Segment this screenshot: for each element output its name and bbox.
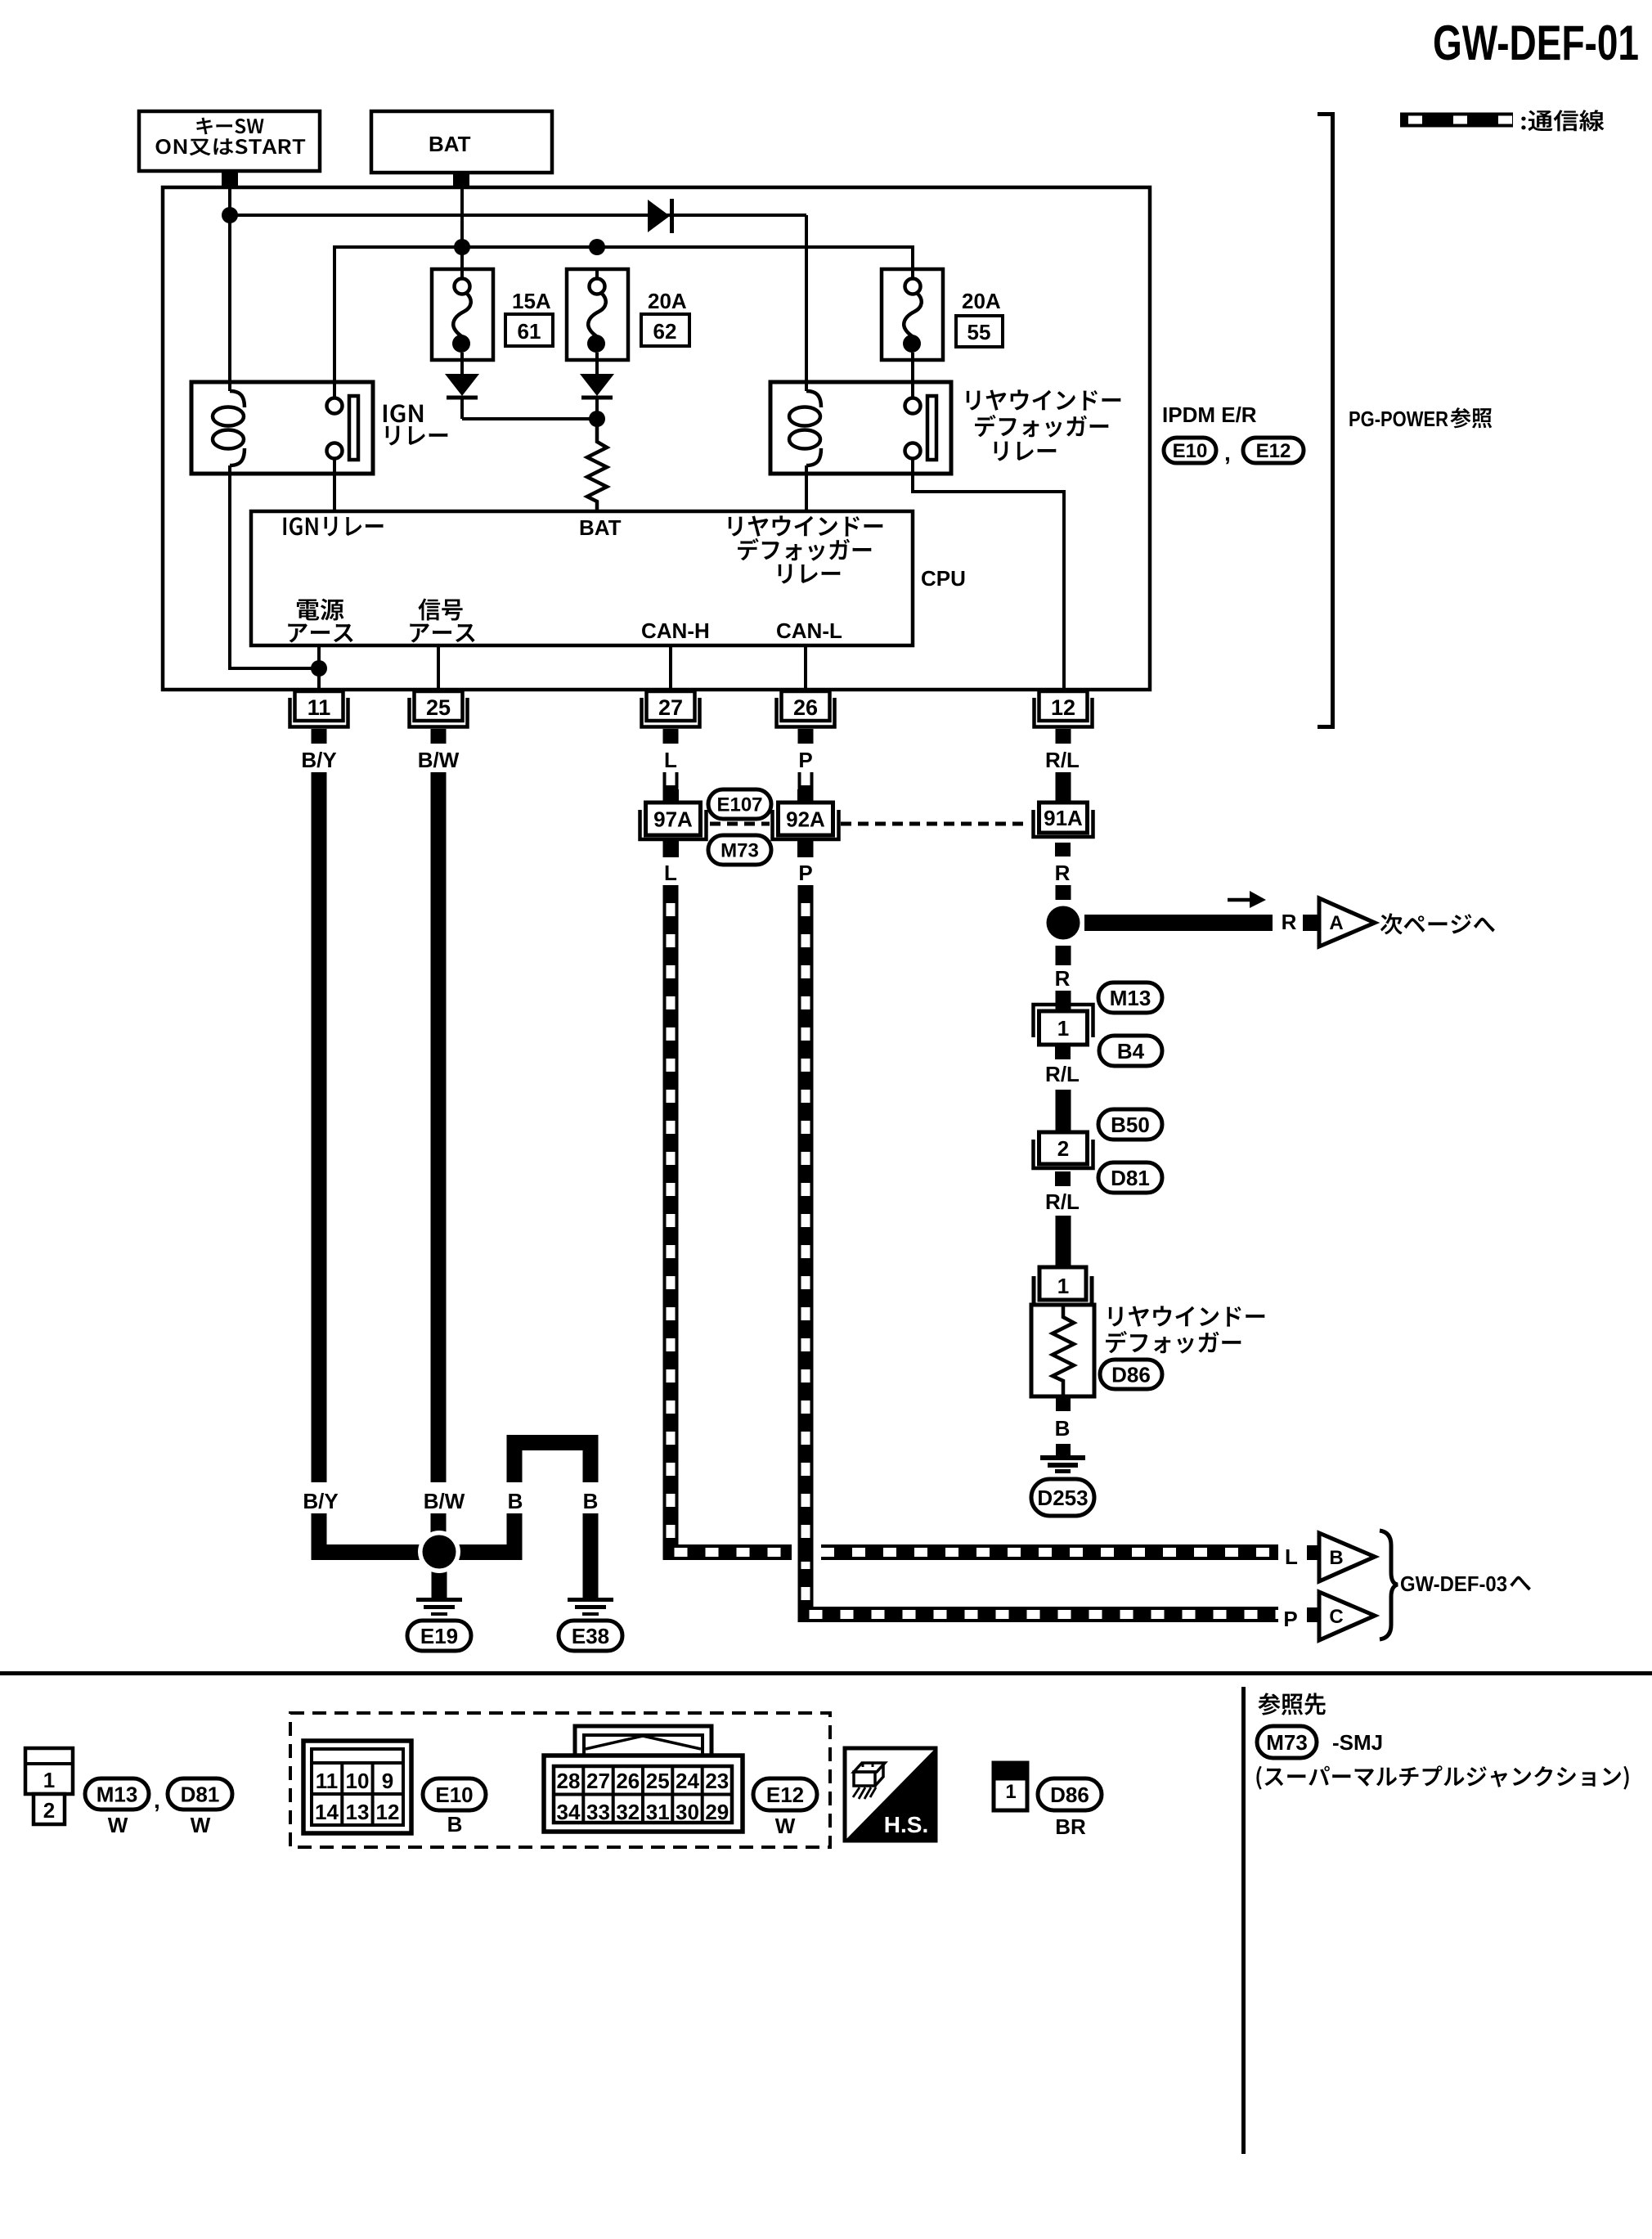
svg-text:CAN-L: CAN-L	[776, 618, 842, 643]
svg-text:CAN-H: CAN-H	[641, 618, 710, 643]
svg-text:E107: E107	[716, 794, 762, 816]
label スーパーマルチプルジャンクション	[1256, 1765, 1628, 1789]
svg-text:PG-POWER: PG-POWER	[1349, 407, 1448, 431]
wire R/L segment e	[1056, 1216, 1071, 1267]
label R at next page	[1282, 910, 1297, 934]
wire R segment a	[1056, 885, 1071, 900]
svg-text:2: 2	[43, 1798, 55, 1823]
label PG-POWER参照	[1349, 407, 1492, 431]
svg-text:M13: M13	[1110, 986, 1151, 1010]
label CAN-L	[776, 618, 842, 643]
oval E12 ref	[1243, 438, 1304, 463]
power source box キーSW ON又はSTART	[139, 111, 320, 186]
svg-text:E38: E38	[572, 1624, 609, 1648]
label 20A fuse55	[962, 289, 1001, 313]
ground D253	[1031, 1455, 1094, 1516]
comma between ovals	[1224, 440, 1231, 465]
brace to GW-DEF-03	[1380, 1531, 1398, 1639]
oval E107	[708, 789, 771, 819]
svg-text:92A: 92A	[786, 807, 825, 831]
label 62 box	[641, 314, 689, 346]
label 参照先	[1258, 1693, 1325, 1715]
svg-text:E12: E12	[766, 1783, 804, 1807]
node bus fuse62 junction	[589, 239, 605, 255]
label B/W	[418, 748, 460, 772]
svg-text:1: 1	[1005, 1781, 1016, 1803]
label R/L mid2	[1045, 1189, 1080, 1214]
wire CPU pin25	[437, 645, 440, 691]
oval E10 ref	[1164, 438, 1216, 463]
connector 92A	[773, 789, 839, 857]
svg-text:15A: 15A	[512, 289, 551, 313]
oval M13 face	[85, 1778, 149, 1810]
oval E10 face	[423, 1778, 486, 1810]
label CPU	[921, 566, 966, 591]
off-page connector B	[1307, 1533, 1375, 1581]
wire splice to E19 ground	[432, 1552, 447, 1598]
wire R segment b	[1056, 946, 1071, 965]
label デフォッガー(CPU)	[738, 538, 871, 561]
svg-text:27: 27	[586, 1769, 610, 1793]
svg-text:W: W	[775, 1814, 796, 1838]
label CAN-H	[641, 618, 710, 643]
svg-text:E10: E10	[1173, 440, 1208, 462]
svg-text:IPDM E/R: IPDM E/R	[1162, 402, 1257, 427]
separator line	[0, 1671, 1652, 1675]
node splice E19	[418, 1531, 460, 1573]
svg-text:1: 1	[1057, 1274, 1069, 1298]
svg-text:P: P	[1283, 1607, 1297, 1631]
svg-text:12: 12	[1051, 695, 1075, 720]
connector E12 face	[544, 1726, 743, 1832]
svg-text:20A: 20A	[962, 289, 1001, 313]
label L at GW-DEF-03	[1285, 1544, 1298, 1569]
svg-text:29: 29	[705, 1800, 729, 1824]
label B right leg	[580, 1482, 601, 1513]
svg-text:30: 30	[676, 1800, 699, 1824]
ground E19	[407, 1598, 471, 1651]
node diode output junction	[589, 411, 605, 427]
connector pin 11	[290, 691, 348, 744]
svg-text:B: B	[508, 1489, 523, 1513]
svg-text:B/W: B/W	[424, 1489, 465, 1513]
label 55 box	[956, 316, 1003, 347]
connector pin 25	[410, 691, 468, 744]
svg-text:A: A	[1329, 912, 1343, 934]
svg-text:B: B	[1055, 1416, 1071, 1441]
connector splice 2 B50/D81	[1034, 1132, 1093, 1186]
svg-text:M73: M73	[721, 840, 759, 862]
svg-text:28: 28	[557, 1769, 581, 1793]
oval M73 face	[1257, 1726, 1317, 1758]
svg-text:91A: 91A	[1044, 806, 1083, 830]
svg-text:D81: D81	[1111, 1166, 1150, 1190]
connector E10 face	[303, 1741, 411, 1833]
label L mid	[661, 857, 680, 885]
label リヤウインドー(load)	[1109, 1306, 1265, 1326]
svg-text:R: R	[1055, 966, 1071, 991]
node key-switch junction	[222, 207, 238, 223]
svg-text:B50: B50	[1111, 1113, 1150, 1137]
svg-text:B: B	[583, 1489, 599, 1513]
fuse F55 20A	[882, 269, 943, 398]
wire R segment c	[1056, 991, 1071, 1011]
svg-text:23: 23	[705, 1769, 729, 1793]
label R above splice	[1055, 861, 1071, 885]
label 20A	[648, 289, 687, 313]
wire R/L segment d	[1056, 1090, 1071, 1132]
svg-text:CPU: CPU	[921, 566, 966, 591]
legend label 通信線	[1521, 110, 1604, 131]
svg-text:1: 1	[43, 1768, 55, 1792]
svg-text:14: 14	[315, 1800, 339, 1824]
svg-text:W: W	[108, 1813, 128, 1837]
oval B4 ref	[1099, 1036, 1162, 1066]
off-page connector C	[1307, 1592, 1375, 1640]
label W M13	[108, 1813, 128, 1837]
svg-text:BR: BR	[1055, 1814, 1086, 1839]
title GW-DEF-01	[1433, 16, 1639, 70]
svg-text:C: C	[1329, 1606, 1343, 1628]
label 15A	[512, 289, 551, 313]
svg-text:61: 61	[518, 319, 541, 344]
svg-text:13: 13	[346, 1800, 370, 1824]
label R/L mid1	[1045, 1062, 1080, 1086]
label リヤウインドーデフォッガーリレー(relay)	[967, 389, 1121, 461]
wire key-switch feed	[228, 173, 231, 382]
svg-text:L: L	[664, 861, 677, 885]
oval D81 ref	[1098, 1162, 1162, 1193]
svg-text:11: 11	[316, 1769, 339, 1793]
wire R to next page (thick)	[1084, 915, 1273, 931]
wire IGN contact to CPU	[333, 459, 336, 511]
label W E12	[775, 1814, 796, 1838]
svg-text:R: R	[1282, 910, 1297, 934]
svg-text:97A: 97A	[653, 807, 693, 831]
node power-ground junction	[311, 660, 327, 677]
svg-text:P: P	[798, 748, 812, 772]
connector M13/D81 cavity 1-2	[25, 1748, 73, 1824]
svg-text:E10: E10	[435, 1783, 473, 1807]
connector pin 27	[642, 691, 700, 744]
label B/Y lower	[297, 1482, 344, 1513]
svg-text:B: B	[1329, 1547, 1343, 1569]
svg-text:B: B	[447, 1812, 463, 1837]
wire defogger contact to pin 12	[913, 459, 1064, 691]
svg-text:GW-DEF-01: GW-DEF-01	[1433, 16, 1639, 70]
wire diode branch	[230, 215, 806, 382]
wire IGN coil return	[230, 465, 319, 668]
svg-text:34: 34	[557, 1800, 581, 1824]
svg-text:20A: 20A	[648, 289, 687, 313]
label R/L	[1045, 748, 1080, 772]
label B E10	[447, 1812, 463, 1837]
node splice R	[1042, 901, 1084, 944]
svg-text:GW-DEF-03: GW-DEF-03	[1400, 1571, 1507, 1596]
svg-text:H.S.: H.S.	[884, 1812, 928, 1837]
label 電源アース	[288, 599, 352, 643]
relay IGN	[191, 382, 373, 474]
label B defogger	[1055, 1416, 1071, 1441]
connector 97A	[640, 789, 707, 857]
wire CPU pin27	[669, 645, 672, 691]
relay rear window defogger	[770, 382, 951, 474]
connector D86 pin 1	[1034, 1267, 1092, 1305]
svg-text:,: ,	[154, 1787, 160, 1813]
svg-text:R/L: R/L	[1045, 1062, 1080, 1086]
CPU box	[251, 511, 913, 645]
wire defogger to ground	[1056, 1444, 1071, 1455]
svg-text:25: 25	[646, 1769, 670, 1793]
svg-text:E19: E19	[420, 1624, 458, 1648]
svg-text:P: P	[798, 861, 812, 885]
svg-text:L: L	[1285, 1544, 1298, 1569]
svg-text:D253: D253	[1037, 1486, 1088, 1510]
svg-text:D81: D81	[181, 1782, 220, 1806]
dashed link 97A-92A	[710, 822, 770, 826]
svg-text:M73: M73	[1266, 1730, 1308, 1755]
svg-text:2: 2	[1057, 1136, 1069, 1161]
oval M73	[708, 835, 771, 865]
legend communication line symbol	[1400, 113, 1513, 128]
svg-text:E12: E12	[1256, 440, 1291, 462]
svg-text:W: W	[191, 1813, 211, 1837]
bracket PG-POWER	[1318, 112, 1333, 729]
label BAT(CPU)	[579, 515, 622, 540]
svg-text:26: 26	[793, 695, 818, 720]
svg-text:11: 11	[308, 695, 331, 720]
svg-text:R/L: R/L	[1045, 748, 1080, 772]
dashed link 92A-91A	[841, 822, 1029, 826]
label 信号アース	[410, 599, 474, 643]
svg-text:BAT: BAT	[579, 515, 622, 540]
wire CPU pin11	[317, 645, 321, 691]
svg-text:BAT: BAT	[429, 132, 471, 156]
svg-text:B/Y: B/Y	[301, 748, 336, 772]
node bus BAT junction	[454, 239, 470, 255]
wire defogger coil to CPU	[805, 465, 808, 511]
connector splice 1 M13/B4	[1034, 1005, 1093, 1059]
fuse F62 20A	[567, 269, 628, 374]
wire BAT feed	[460, 173, 464, 269]
svg-text:D86: D86	[1111, 1362, 1151, 1387]
label IGN リレー	[384, 404, 447, 445]
svg-text:B4: B4	[1117, 1039, 1145, 1063]
label W D81	[191, 1813, 211, 1837]
label GW-DEF-03へ	[1400, 1571, 1531, 1596]
svg-text:31: 31	[646, 1800, 670, 1824]
label P mid	[796, 857, 815, 885]
oval M13 ref	[1098, 982, 1162, 1013]
label L	[664, 748, 677, 772]
label P at GW-DEF-03	[1283, 1607, 1297, 1631]
label 61 box	[505, 314, 553, 346]
svg-text:B/Y: B/Y	[303, 1489, 338, 1513]
svg-text:10: 10	[346, 1769, 370, 1793]
dashed box connector group	[290, 1713, 830, 1847]
label リレー(CPU)	[779, 564, 841, 584]
H.S. mark	[845, 1748, 936, 1841]
label デフォッガー(load)	[1106, 1331, 1241, 1354]
svg-text:-SMJ: -SMJ	[1332, 1730, 1383, 1755]
label 次ページへ	[1380, 913, 1495, 934]
svg-text:L: L	[664, 748, 677, 772]
svg-text:27: 27	[658, 695, 683, 720]
svg-text:32: 32	[616, 1800, 640, 1824]
power source box BAT	[371, 111, 552, 186]
wire CAN-H L (checkered)	[671, 772, 1278, 1562]
wire B/Y (thick)	[319, 772, 447, 1553]
connector pin 26	[777, 691, 835, 744]
label R below splice	[1055, 966, 1071, 991]
comma bottom	[154, 1787, 160, 1813]
svg-text:26: 26	[616, 1769, 640, 1793]
fuse F61 15A	[432, 269, 493, 374]
resistor bias	[587, 419, 607, 511]
divider line bottom	[1241, 1687, 1246, 2154]
svg-text:9: 9	[382, 1769, 393, 1793]
svg-text:33: 33	[586, 1800, 610, 1824]
svg-text:12: 12	[376, 1800, 400, 1824]
label B/W lower	[420, 1482, 468, 1513]
svg-text:B/W: B/W	[418, 748, 460, 772]
diode D3 below fuse62	[580, 374, 614, 419]
label IPDM E/R	[1162, 402, 1257, 427]
wire fuse bus	[334, 247, 913, 398]
wire B/W (thick)	[431, 772, 447, 1553]
label BR	[1055, 1814, 1086, 1839]
diode D2 below fuse61	[445, 374, 597, 419]
svg-text:25: 25	[426, 695, 451, 720]
label B left leg	[505, 1482, 526, 1513]
label IGNリレー(CPU)	[284, 517, 384, 537]
label -SMJ	[1332, 1730, 1383, 1755]
svg-text:24: 24	[676, 1769, 699, 1793]
rear window defogger load	[1031, 1305, 1094, 1411]
wire R/L pin12 to 91A	[1056, 772, 1071, 803]
svg-text:R/L: R/L	[1045, 1189, 1080, 1214]
wire CPU pin26	[804, 645, 807, 691]
oval B50 ref	[1098, 1109, 1162, 1140]
svg-text:55: 55	[967, 320, 991, 344]
svg-text:R: R	[1055, 861, 1071, 885]
svg-text:M13: M13	[97, 1782, 138, 1806]
connector 91A	[1034, 803, 1093, 856]
label P	[798, 748, 812, 772]
off-page connector A	[1303, 898, 1375, 946]
wire B jumper loop	[447, 1443, 590, 1598]
svg-text:1: 1	[1057, 1016, 1069, 1041]
wire CAN-L P (checkered)	[806, 772, 1278, 1615]
oval D86 face	[1038, 1778, 1102, 1810]
diode D1 inline	[648, 199, 672, 233]
connector pin 12	[1035, 691, 1093, 744]
label リヤウインドー(CPU)	[729, 515, 883, 536]
svg-text:,: ,	[1224, 440, 1231, 465]
connector D86 face	[994, 1763, 1027, 1810]
oval E12 face	[753, 1778, 817, 1810]
arrow direction marker	[1228, 891, 1266, 908]
svg-text:D86: D86	[1050, 1783, 1089, 1807]
svg-text:62: 62	[653, 319, 677, 344]
label B/Y	[301, 748, 336, 772]
oval D86 ref	[1100, 1360, 1162, 1389]
IPDM E/R enclosure box	[163, 187, 1150, 690]
ground E38	[559, 1598, 622, 1651]
oval D81 face	[168, 1778, 232, 1810]
